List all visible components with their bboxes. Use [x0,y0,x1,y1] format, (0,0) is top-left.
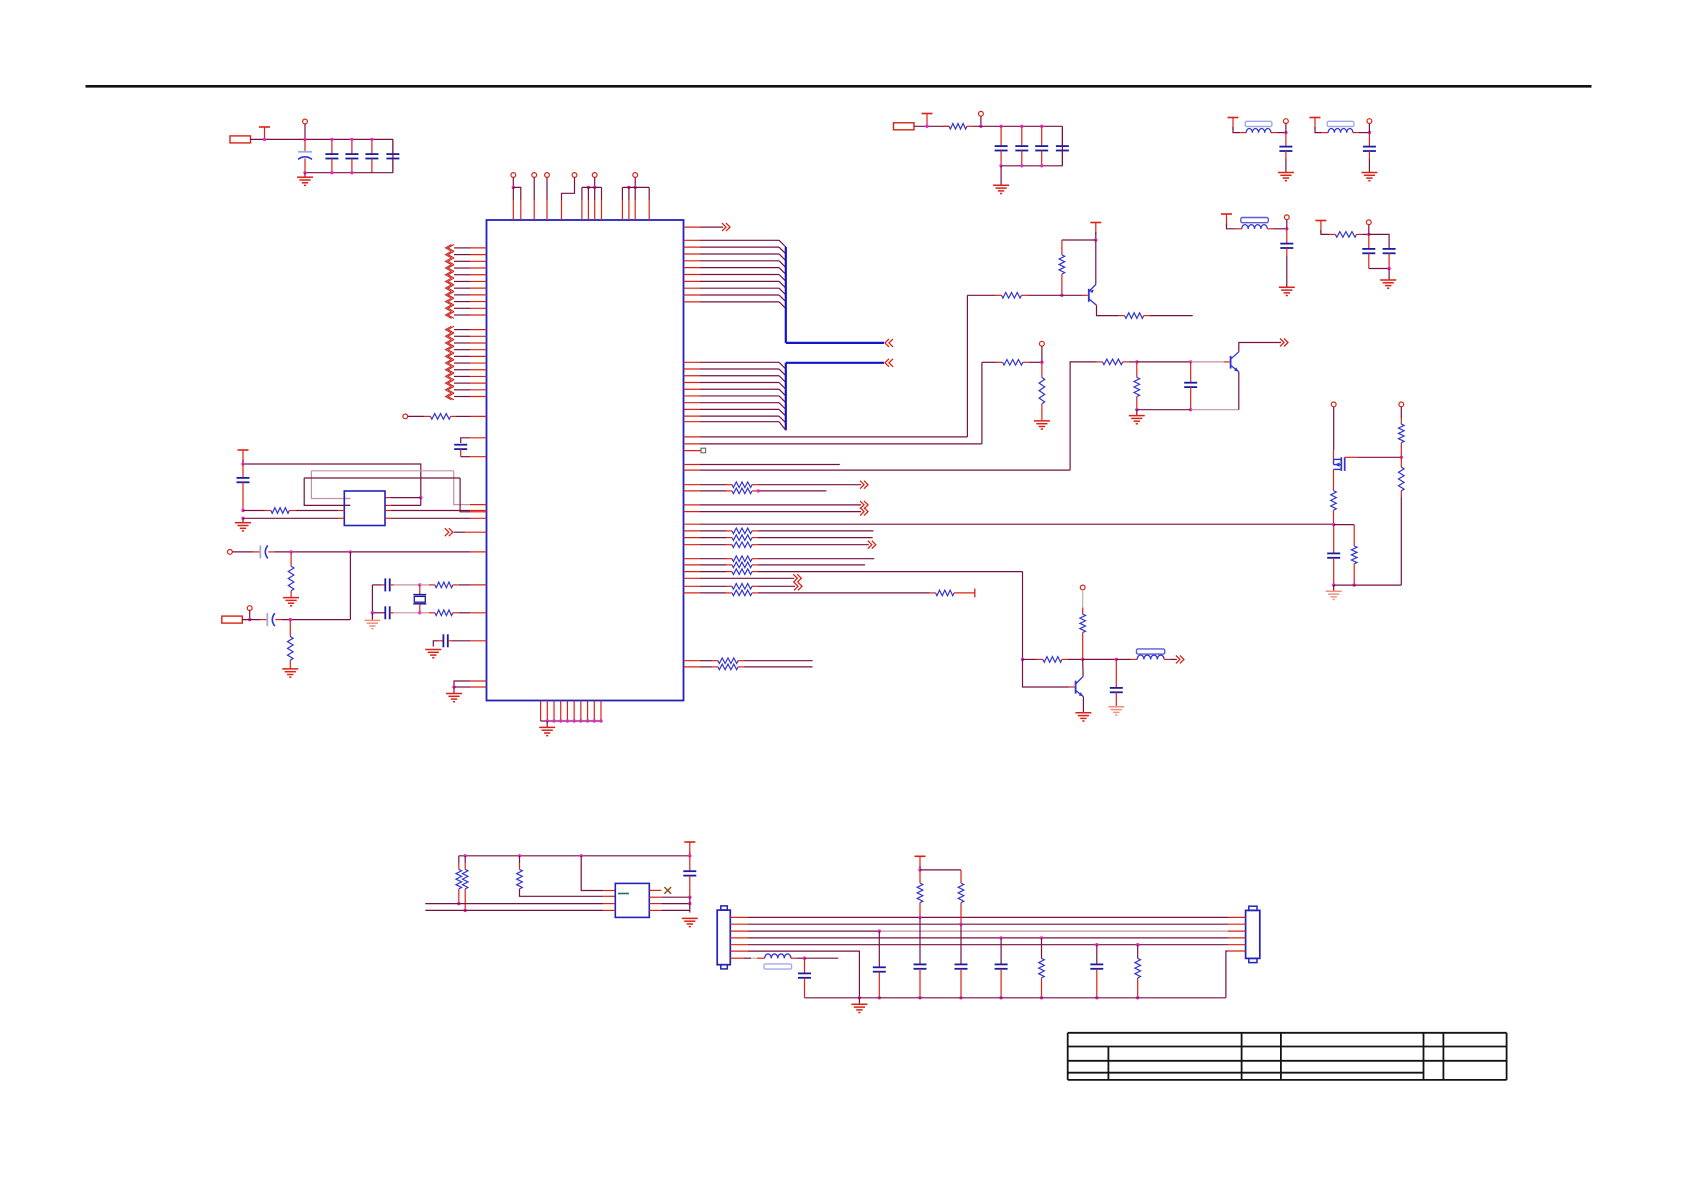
node junction [350,138,353,141]
wire top rail [973,125,1062,128]
resistor R41 base series [1023,657,1085,663]
resistor R45 [517,856,616,897]
IC U3 [615,883,649,917]
wire emitter rail [1137,409,1239,411]
resistor R22 [408,414,487,420]
capacitor C14 [372,578,419,591]
connector J1 [717,906,730,969]
wire bus pin [684,422,786,431]
power flag VCC6 [915,856,926,868]
power pin [1040,341,1045,362]
capacitor C1 electrolytic [298,139,312,172]
power pin [303,119,308,139]
ground [282,669,298,677]
resistor R49 [1135,943,1141,1000]
wire stub [805,957,839,959]
wire to output node [1083,658,1118,661]
resistor R32 collector series [1125,313,1193,319]
resistor R23 [241,508,486,514]
capacitor C13 coupling [242,613,282,626]
resistor R16 line [684,562,866,568]
wire collector node [1082,659,1084,676]
wire supply to U2 [241,460,422,500]
transistor Q2 NPN [1231,352,1239,372]
no-connect X [649,887,671,894]
resistor R35 base series [1103,359,1139,365]
capacitor C2 [325,139,338,172]
power pin B (top) [532,173,537,220]
wire line2 [425,909,615,911]
resistor R18 line with arrow [684,582,803,590]
resistor R37 source series [1331,469,1337,526]
wire emitter [1082,697,1084,713]
capacitor C4 [365,139,378,172]
capacitor C18 [1015,126,1028,166]
capacitor C10 pin loop [454,438,486,457]
power pin group F (top) [622,173,649,220]
wire [581,856,615,891]
transistor Q1 PNP [1089,285,1097,306]
wire bottom rail [303,139,393,174]
capacitor C19 [1035,126,1048,166]
wire U2 out R2 [385,499,421,506]
wire ground rail [805,997,1226,999]
wire [914,125,949,128]
capacitor C26 [1184,362,1197,412]
wire line6 left [730,951,861,999]
capacitor C11 [237,464,250,511]
power flag VCC5 [684,842,695,854]
capacitor C30 [798,958,811,998]
wire stub [684,464,840,466]
wire bottom rail [999,126,1062,167]
ground [993,166,1009,194]
wire base net [1137,360,1230,363]
wire [918,866,961,872]
power pin [247,606,252,622]
power flag VCC2 [238,450,249,462]
ground [539,721,555,736]
bus wires J1-J2 [730,917,1245,944]
ground [446,694,462,702]
wire [689,897,691,912]
resistor R13 line [684,535,873,541]
ground [425,650,441,658]
connector J2 [1246,906,1260,962]
resistor R36 base pulldown [1134,362,1140,412]
IC U1 right pin group A to bus [684,240,786,308]
ground [1326,585,1342,599]
resistor R17 line to Q3 [684,569,1023,575]
power pin C (top) [545,173,550,220]
resistor R24 [288,552,294,598]
capacitor C5 [386,139,399,172]
wire top rail [305,138,393,140]
capacitor C32 [955,924,968,999]
node junction [330,138,333,141]
bus B [786,363,884,430]
power pin [403,414,408,419]
net arrow line [684,501,869,509]
table (title block) [1068,1033,1507,1080]
node junction [263,138,266,141]
wire to Q2 input [684,469,1071,471]
wire U2 line B [241,517,486,520]
ground [1075,713,1091,721]
IC U1 right pin group B to bus [684,362,786,423]
power pin [979,111,984,128]
capacitor C29 [683,856,696,897]
filter R29/C24/C25 [1315,220,1396,288]
capacitor C15 [372,585,419,619]
power pin D (top, jog) [562,173,577,220]
wire drain [1333,414,1335,459]
IC U1 left pin group 2 with no-connect chevrons [446,326,487,400]
resistor R33 [1003,360,1044,366]
resistor R39 gate lower [1399,457,1405,585]
net arrow out [1176,655,1184,663]
wire emitter supply [1094,232,1097,285]
power flag VCC3 [922,114,933,126]
wire input from IC [1021,572,1024,662]
ground [297,173,313,186]
resistor R12 line [684,528,874,534]
wire bottom rail [1334,584,1402,586]
bus A [786,247,884,343]
crystal Y1 [413,583,426,614]
wire U2 out B [304,478,486,512]
port P4 [894,123,915,130]
wire line6 right [1226,951,1246,998]
net arrow line [684,508,869,516]
wire collector out with arrow [1239,339,1288,352]
capacitor C17 [995,126,1008,166]
inductor L4 [1116,649,1177,660]
wire to R-divider [684,443,982,445]
wire top rail [459,852,692,858]
resistor R46 [917,870,923,919]
resistor R27 [420,610,487,616]
capacitor C12 coupling [232,545,274,558]
power pin group E (top) [582,173,602,220]
wire U2 out A [311,471,486,505]
ground [1108,707,1124,715]
capacitor C3 [345,139,358,172]
resistor R48 [1039,936,1045,999]
ground [364,611,380,629]
net arrow in [445,528,487,536]
resistor R40 [1334,525,1357,587]
filter L1/C21 [1228,118,1294,181]
bus B arrow [885,359,893,367]
power pin group A (top) [511,173,521,220]
wire base line [967,294,1001,296]
wire line1 [425,903,615,905]
power flag VCC4 [1090,223,1101,235]
ground [851,998,867,1013]
resistor R42 collector pull-up [1080,614,1086,659]
capacitor C35 [1090,943,1103,1000]
wire Q1 base to IC [966,295,968,437]
resistor R34 pulldown [1039,362,1045,421]
filter L2/C22 [1310,118,1378,181]
resistor R11 line [684,488,827,494]
bus A arrow [885,339,893,347]
wire gate [1345,456,1403,459]
resistor R25 [288,620,294,669]
resistor R30 base pull-up [1059,240,1096,297]
resistor R10 line with arrow [684,481,869,489]
resistor R19 line with end stub [684,589,975,598]
resistor R14 line with arrow [684,541,876,549]
wire ground loop [452,681,486,694]
IC U1 bottom pins bus bar [541,701,603,723]
wire [275,550,487,553]
no-connect pin [684,448,706,453]
resistor R15 line [684,556,875,562]
wire input [1070,362,1102,470]
resistor R31 base series [1002,293,1088,299]
capacitor C31 [914,917,927,999]
wire to Q1 base [684,436,968,438]
node junction [303,138,306,141]
oscillator U2 [344,491,385,526]
IC U1 [487,220,684,701]
capacitor C28 [1110,659,1123,706]
inductor L5 [730,954,806,969]
port P1 [230,136,251,143]
capacitor C34 [995,936,1008,999]
resistor R44 [462,856,468,912]
wire collector out [1097,305,1125,315]
ground [235,518,251,531]
node junction [370,138,373,141]
resistor R21 line [684,664,813,670]
IC U1 left pin group 1 with no-connect chevrons [446,245,487,319]
capacitor C20 [1056,126,1069,166]
transistor Q3 NPN [1076,676,1084,696]
wire U3 outs [649,896,691,911]
resistor R28 [943,124,973,130]
filter L3/C23 [1221,214,1295,296]
resistor R38 gate upper [1399,402,1405,457]
capacitor C16 [433,634,486,647]
resistor R47 [958,870,964,926]
resistor R20 line [684,658,813,664]
MOSFET Q4 [1334,457,1345,471]
wire from IC [982,362,1003,444]
ground [283,598,299,606]
wire base feedback [1023,659,1075,687]
capacitor C33 [873,929,886,999]
resistor R43 [456,856,462,906]
capacitor C27 [1327,525,1340,587]
open pin [228,550,233,555]
power flag VCC1 [259,127,270,139]
power pin [1331,402,1336,414]
port P3 [222,616,243,623]
net arrow out (top right) [684,223,731,231]
ground [1034,421,1050,429]
wire emitter down [1238,372,1240,410]
wire [251,138,306,140]
wire [282,552,350,621]
long wire to MOSFET gate divider [684,523,1334,525]
power pin [1080,585,1085,614]
ground [682,918,698,926]
resistor R26 [420,582,487,588]
ground [1129,410,1145,424]
net arrow line [684,574,802,582]
